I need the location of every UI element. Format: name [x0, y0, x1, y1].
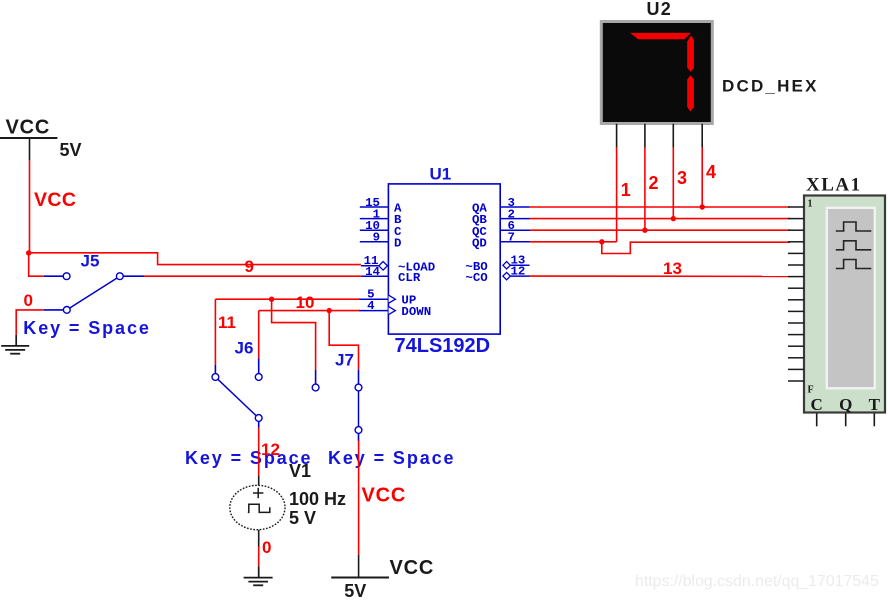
svg-text:J5: J5 — [81, 252, 100, 271]
svg-text:13: 13 — [663, 259, 682, 278]
XLA1 input stub 16 — [788, 380, 804, 382]
svg-text:D: D — [394, 236, 401, 250]
svg-text:0: 0 — [262, 538, 271, 557]
XLA1 input stub 13 — [788, 345, 804, 347]
svg-text:J6: J6 — [235, 339, 254, 358]
svg-text:T: T — [869, 395, 881, 414]
svg-text:4: 4 — [706, 162, 716, 182]
pin stub d of U2 — [701, 124, 703, 147]
svg-text:5 V: 5 V — [289, 508, 316, 528]
XLA1 input stub 1 — [788, 206, 804, 208]
pin 9 (D) of U1 — [360, 231, 402, 251]
svg-text:Key = Space: Key = Space — [328, 448, 455, 468]
wire: net 10 corner down to J6 left contact — [214, 299, 216, 365]
pin 15 (A) of U1 — [360, 196, 402, 216]
svg-text:DCD_HEX: DCD_HEX — [722, 77, 819, 96]
svg-text:14: 14 — [365, 265, 380, 279]
instrument XLA1 logic analyzer body — [804, 196, 885, 413]
svg-text:1: 1 — [621, 180, 631, 200]
pin 2 (QB) of U1 — [472, 207, 530, 227]
op chip U1 74LS192D body — [388, 184, 500, 334]
svg-text:F: F — [808, 385, 814, 396]
wire net 11: to DOWN pin 4 of U1 — [259, 310, 360, 312]
pin 1 (B) of U1 — [360, 207, 402, 227]
XLA1 input stub 12 — [788, 334, 804, 336]
wire net VCC: from VCC symbol down to junction — [29, 160, 31, 253]
wire net 0: J5 lower contact to ground — [16, 310, 44, 335]
junction dot net QD — [599, 239, 604, 244]
wire U2 pin c vertical (net 3) — [672, 147, 674, 219]
junction dot net 3/QB — [671, 216, 676, 221]
svg-text:7: 7 — [508, 231, 515, 245]
pin 3 (QA) of U1 — [472, 196, 530, 216]
switch J6 (SPDT, Key = Space) — [212, 359, 262, 428]
svg-text:2: 2 — [649, 173, 659, 193]
wire net 0: V1 minus terminal down to ground — [258, 547, 260, 567]
svg-text:3: 3 — [677, 168, 687, 188]
XLA1 input stub 11 — [788, 322, 804, 324]
junction dot net 4/QA — [700, 204, 705, 209]
XLA1 input stub 9 — [788, 299, 804, 301]
wire net 12: J6 common down to V1 plus terminal — [258, 427, 260, 476]
svg-text:VCC: VCC — [362, 485, 407, 507]
svg-text:https://blog.csdn.net/qq_17017: https://blog.csdn.net/qq_17017545 — [635, 573, 879, 590]
svg-text:DOWN: DOWN — [401, 305, 431, 319]
wire U2 pin d vertical (net 4) — [701, 147, 703, 207]
wire net 13: ~CO pin 12 of U1 to XLA1 pin 7 — [530, 275, 791, 277]
waveform glyph 3 — [836, 260, 872, 269]
svg-text:J7: J7 — [335, 351, 354, 370]
svg-text:9: 9 — [373, 231, 380, 245]
svg-text:C: C — [811, 395, 823, 414]
XLA1 input stub 7 — [788, 276, 804, 278]
XLA1 screen — [827, 208, 875, 388]
pin 7 (QD) of U1 — [472, 231, 530, 251]
pin 4 (DOWN) of U1 with clock triangle — [359, 299, 431, 319]
svg-text:11: 11 — [218, 313, 236, 332]
wire U2 pin b vertical (net 2) — [644, 147, 646, 230]
svg-text:12: 12 — [511, 264, 526, 278]
svg-text:10: 10 — [296, 293, 315, 312]
svg-text:9: 9 — [245, 257, 254, 276]
pin 14 (CLR) of U1 — [361, 265, 421, 285]
wire: junction down to J5 upper-left contact — [29, 253, 44, 276]
svg-text:5V: 5V — [344, 581, 366, 600]
pin 11 (~LOAD) of U1 — [361, 254, 435, 275]
junction dot net 10 — [269, 297, 274, 302]
svg-text:VCC: VCC — [6, 117, 51, 139]
wire net 3: QC of U1 to XLA1 pin 3 — [530, 229, 791, 231]
wire: net 10 junction L-path to J7 left contact — [272, 299, 316, 370]
svg-text:U2: U2 — [647, 0, 672, 19]
wire net 2: QB of U1 to XLA1 pin 2 — [530, 218, 791, 220]
pin 6 (QC) of U1 — [472, 219, 530, 239]
svg-text:4: 4 — [367, 299, 375, 313]
XLA1 input stub 5 — [788, 252, 804, 254]
pin stub a of U2 — [616, 124, 618, 147]
XLA1 input stub 15 — [788, 368, 804, 370]
display U2 DCD_HEX seven-segment — [601, 22, 712, 124]
XLA1 input stub 6 — [788, 264, 804, 266]
svg-text:100 Hz: 100 Hz — [289, 489, 346, 509]
wire U2 pin a vertical (net 1) — [616, 147, 618, 242]
switch J5 (SPDT, Key = Space) — [44, 273, 144, 313]
svg-text:XLA1: XLA1 — [806, 175, 862, 196]
svg-text:~CO: ~CO — [465, 271, 487, 285]
wire net 10: to UP pin 5 of U1 — [215, 298, 360, 300]
XLA1 input stub 14 — [788, 357, 804, 359]
XLA1 input stub 4 — [788, 241, 804, 243]
pin stub b of U2 — [644, 124, 646, 147]
junction dot net 11 — [327, 308, 332, 313]
svg-text:VCC: VCC — [390, 557, 435, 579]
svg-text:1: 1 — [808, 199, 813, 210]
svg-text:CLR: CLR — [398, 271, 421, 285]
wire: J5 common to CLR pin 14 of U1 — [144, 275, 361, 277]
svg-text:Q: Q — [839, 395, 852, 414]
svg-text:Key = Space: Key = Space — [23, 318, 150, 338]
waveform glyph 2 — [836, 241, 872, 250]
pin 13 (~BO) of U1 — [465, 254, 529, 275]
svg-text:74LS192D: 74LS192D — [395, 335, 491, 357]
waveform glyph 1 — [836, 222, 872, 231]
svg-text:VCC: VCC — [34, 189, 76, 211]
XLA1 input stub 3 — [788, 229, 804, 231]
pin stub c of U2 — [672, 124, 674, 147]
svg-text:V1: V1 — [289, 461, 311, 481]
svg-text:QD: QD — [472, 236, 487, 250]
wire: net 11 junction L-path to J7 right contact — [329, 311, 358, 370]
svg-text:U1: U1 — [430, 165, 452, 184]
svg-text:0: 0 — [24, 291, 33, 310]
XLA1 input stub 10 — [788, 310, 804, 312]
pin 12 (~CO) of U1 — [465, 264, 529, 285]
wire net VCC: J7 common down to VCC symbol at bottom — [358, 440, 360, 555]
ground symbol (net 0, under V1) — [244, 566, 273, 585]
XLA1 C stub — [816, 414, 818, 427]
ground symbol (net 0, left) — [1, 335, 29, 354]
junction dot on VCC net — [26, 250, 31, 255]
XLA1 Q stub — [845, 414, 847, 427]
wire net 4: QD of U1 to XLA1 pin 4 (with dip) — [530, 241, 617, 243]
source V1 100Hz 5V clock — [230, 475, 285, 546]
switch J7 (SPDT, Key = Space) — [312, 370, 362, 441]
wire net 1: QA of U1 to XLA1 pin 1 — [530, 206, 791, 208]
power symbol VCC (bottom) 5V — [331, 555, 389, 578]
pin 10 (C) of U1 — [360, 219, 402, 239]
svg-text:12: 12 — [261, 440, 280, 459]
XLA1 input stub 8 — [788, 287, 804, 289]
junction dot net 2/QC — [642, 228, 647, 233]
svg-text:5V: 5V — [60, 140, 82, 160]
XLA1 input stub 2 — [788, 218, 804, 220]
XLA1 T stub — [873, 414, 875, 427]
pin 5 (UP) of U1 with clock triangle — [359, 288, 416, 308]
wire: net 11 corner down to J6 right contact — [258, 311, 260, 359]
wire net 9: junction to ~LOAD pin 11 of U1, with step — [29, 253, 361, 265]
